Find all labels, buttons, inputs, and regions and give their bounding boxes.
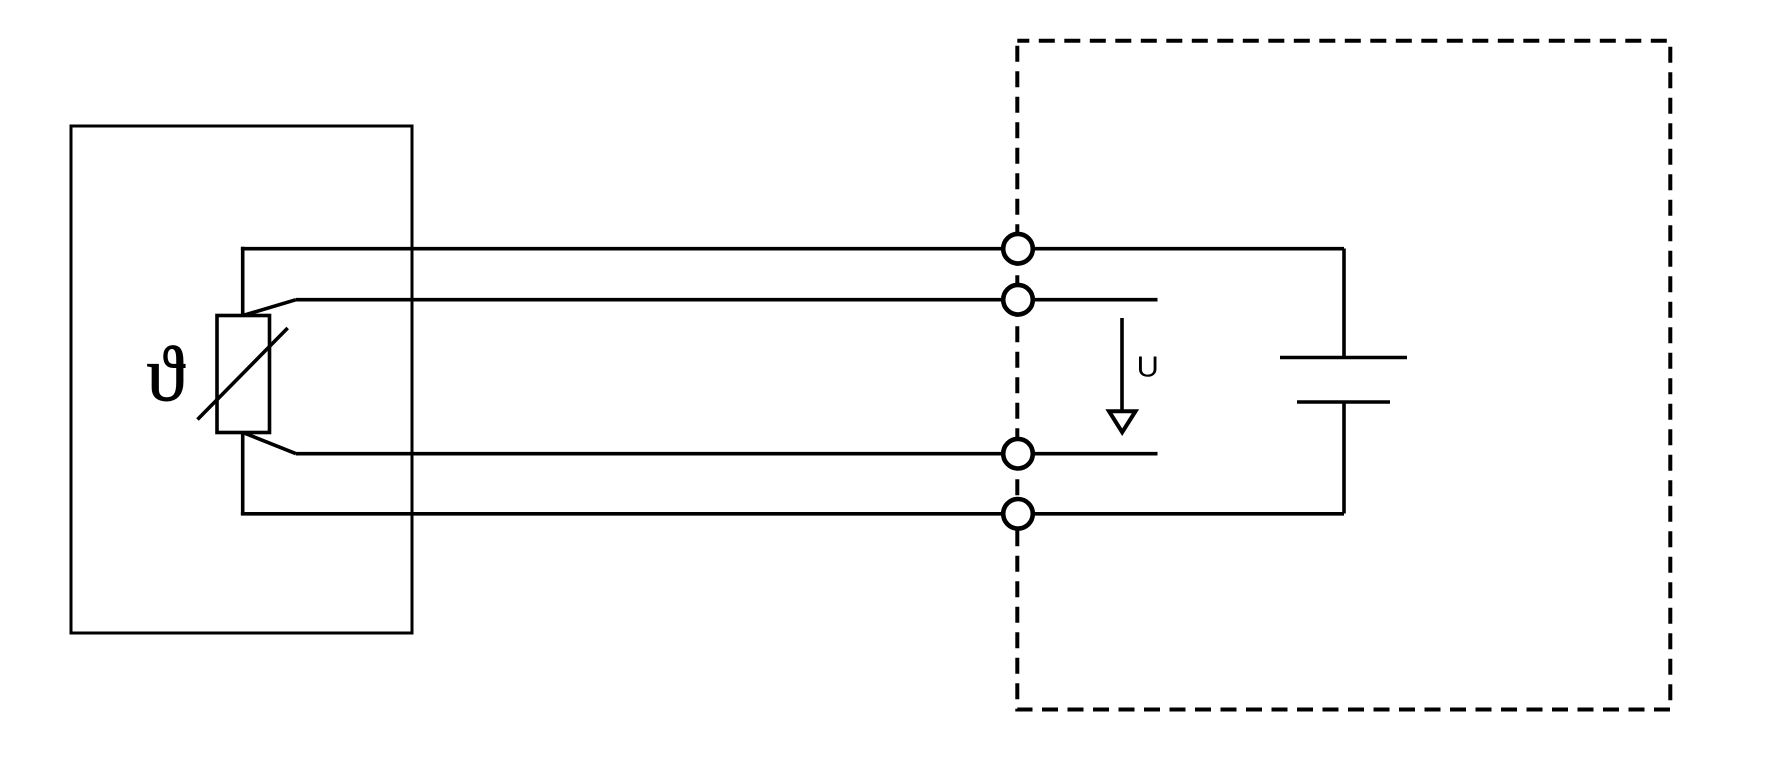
resistor diagonal stroke (198, 328, 288, 420)
resistor RTD body (217, 316, 270, 433)
wire 2 horizontal (296, 298, 1158, 302)
source top plate (1280, 356, 1407, 360)
svg-text:ϑ: ϑ (147, 330, 186, 417)
terminal 3 (1003, 439, 1033, 469)
wire vertical bottom lead (241, 431, 245, 515)
wire 3 horizontal (296, 452, 1158, 456)
terminal 1 (1003, 234, 1033, 264)
wire 1 horizontal (241, 247, 1344, 251)
source bottom plate (1297, 400, 1390, 404)
voltage arrow U head (1109, 411, 1136, 432)
wire battery top connection (1342, 249, 1346, 358)
wire 3 diagonal stub (243, 433, 296, 454)
wire battery bottom connection (1342, 402, 1346, 514)
solid box (sensor enclosure) (71, 126, 412, 633)
wire vertical top lead (241, 247, 245, 317)
terminal 2 (1003, 285, 1033, 315)
dashed box (transmitter enclosure) (1017, 41, 1670, 710)
terminal 4 (1003, 499, 1033, 529)
svg-text:U: U (1137, 351, 1159, 383)
voltage arrow U shaft (1120, 318, 1124, 410)
wire 2 diagonal stub (243, 300, 296, 316)
wire 4 horizontal (241, 512, 1344, 516)
